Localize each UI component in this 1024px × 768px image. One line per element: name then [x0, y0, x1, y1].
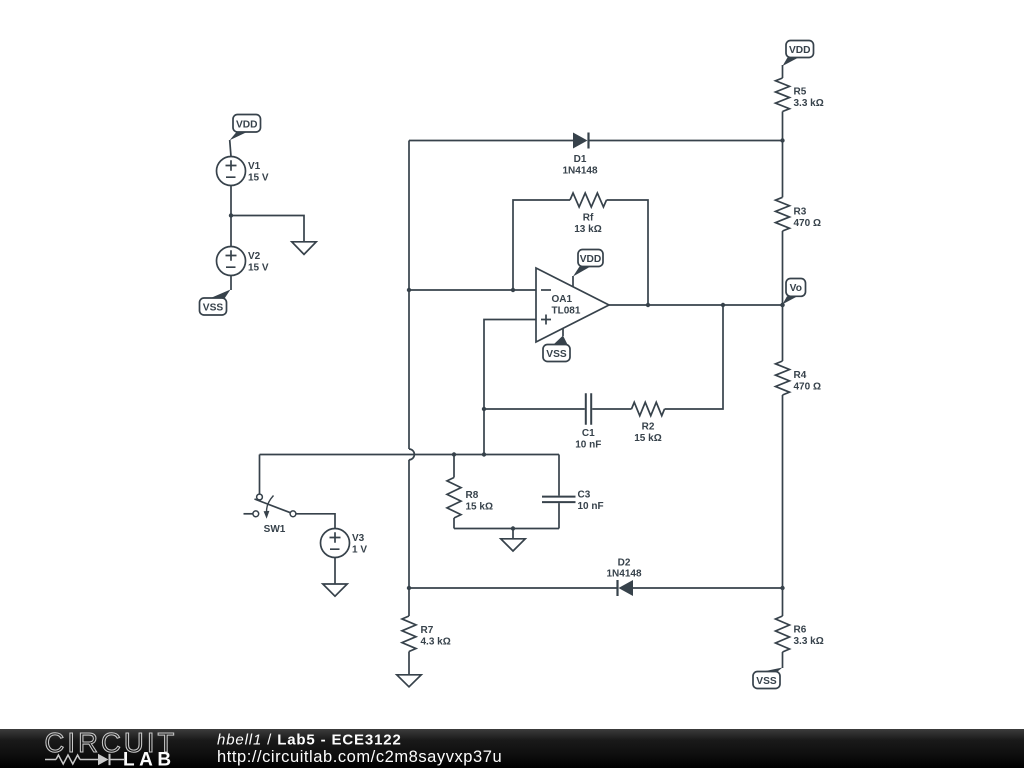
svg-text:R7: R7 — [421, 625, 434, 636]
wire V3 to ground — [334, 558, 336, 585]
wire hop — [409, 449, 414, 460]
svg-text:10 nF: 10 nF — [575, 440, 601, 451]
svg-text:R5: R5 — [794, 87, 807, 98]
svg-text:VSS: VSS — [756, 676, 777, 687]
node junction Vo — [780, 303, 784, 307]
svg-text:Rf: Rf — [583, 212, 594, 223]
diode D2 — [618, 580, 634, 596]
svg-text:VSS: VSS — [203, 303, 224, 314]
node junction inverting input — [407, 288, 411, 292]
resistor R4 — [776, 361, 790, 395]
resistor Rf — [570, 193, 606, 207]
svg-text:D1: D1 — [574, 154, 587, 165]
switch SW1 — [244, 494, 296, 519]
resistor R7 — [402, 616, 416, 652]
svg-text:470 Ω: 470 Ω — [794, 382, 821, 393]
svg-text:VDD: VDD — [580, 254, 602, 265]
svg-text:1N4148: 1N4148 — [606, 569, 641, 580]
voltage source V2 — [217, 247, 246, 276]
wire R3 to Vo node — [782, 231, 784, 361]
node junction R2/output — [721, 303, 725, 307]
op-amp non-inverting pin mark — [541, 315, 551, 325]
svg-text:1N4148: 1N4148 — [562, 166, 597, 177]
svg-text:15 V: 15 V — [248, 173, 269, 184]
node junction Rf tap — [511, 288, 515, 292]
power flag VDD (V1 top) — [230, 115, 261, 141]
ground (supply midpoint) — [292, 242, 316, 255]
power flag VSS (bottom right) — [753, 668, 783, 689]
wire top net — [409, 140, 783, 142]
svg-text:OA1: OA1 — [552, 294, 573, 305]
resistor R6 — [776, 616, 790, 652]
svg-text:http://circuitlab.com/c2m8sayv: http://circuitlab.com/c2m8sayvxp37u — [217, 748, 502, 766]
ground (below R8/C3) — [512, 529, 514, 539]
resistor R8 — [453, 455, 455, 478]
svg-text:SW1: SW1 — [264, 524, 286, 535]
resistor R2 — [632, 402, 665, 416]
node junction mid supply — [229, 213, 233, 217]
wire down to SW1 — [259, 455, 261, 494]
power flag VSS (V2 bottom) — [200, 290, 231, 316]
wire SW1 net (hops over left rail) — [260, 454, 455, 456]
wire V2 to VSS — [230, 276, 232, 291]
wire D2 net — [409, 587, 783, 589]
resistor R3 — [776, 197, 790, 231]
svg-text:R6: R6 — [794, 625, 807, 636]
wire VDD to V1 — [230, 140, 231, 157]
node junction C1 tap — [482, 407, 486, 411]
svg-text:3.3 kΩ: 3.3 kΩ — [794, 636, 824, 647]
wire R8/C3 box top — [454, 454, 559, 456]
capacitor C1 — [586, 393, 591, 425]
svg-text:15 V: 15 V — [248, 263, 269, 274]
node junction Rf/output — [646, 303, 650, 307]
svg-text:13 kΩ: 13 kΩ — [574, 224, 601, 235]
ground (below R7) — [397, 675, 421, 687]
power flag VSS (op-amp supply) — [543, 329, 570, 362]
wire mid supply to ground — [231, 216, 304, 242]
capacitor C3 — [558, 455, 560, 496]
node junction output/right rail — [780, 303, 784, 307]
resistor R5 — [776, 78, 790, 111]
svg-text:R2: R2 — [642, 421, 655, 432]
svg-text:TL081: TL081 — [552, 306, 581, 317]
node Vo flag — [783, 279, 806, 305]
svg-text:15 kΩ: 15 kΩ — [466, 502, 493, 513]
wire C1 left — [484, 408, 585, 410]
svg-text:R4: R4 — [794, 370, 807, 381]
node junction ground tap — [511, 526, 515, 530]
wire inverting input — [409, 289, 536, 291]
svg-text:C3: C3 — [578, 490, 591, 501]
svg-text:LAB: LAB — [123, 750, 176, 768]
node junction R8 box top — [482, 452, 486, 456]
voltage source V1 — [217, 157, 246, 186]
wire output net — [609, 304, 783, 306]
wire R8/C3 box bottom — [454, 528, 559, 530]
node junction top-right — [780, 138, 784, 142]
op-amp inverting pin mark — [541, 289, 551, 291]
svg-text:V1: V1 — [248, 161, 261, 172]
svg-text:hbell1 / Lab5 - ECE3122: hbell1 / Lab5 - ECE3122 — [217, 732, 402, 749]
wire left rail — [408, 141, 410, 589]
svg-text:C1: C1 — [582, 428, 595, 439]
wire VDD to R5 — [782, 65, 784, 78]
wire C1 to R2 — [592, 408, 631, 410]
node junction R8 top — [452, 452, 456, 456]
wire V1 to V2 — [230, 186, 232, 247]
power flag VDD (top right) — [783, 41, 814, 67]
power flag VDD (op-amp supply) — [573, 250, 603, 288]
svg-text:Vo: Vo — [790, 283, 802, 294]
svg-text:15 kΩ: 15 kΩ — [634, 433, 661, 444]
ground (below V3) — [323, 584, 347, 596]
svg-text:VDD: VDD — [236, 119, 258, 130]
wire R4 to R6 — [782, 395, 784, 616]
svg-text:VDD: VDD — [789, 45, 811, 56]
svg-text:3.3 kΩ: 3.3 kΩ — [794, 98, 824, 109]
svg-text:R3: R3 — [794, 206, 807, 217]
svg-text:470 Ω: 470 Ω — [794, 218, 821, 229]
wire non-inverting input — [484, 320, 536, 455]
diode D1 — [573, 133, 589, 149]
node junction left rail / D2 net — [407, 586, 411, 590]
op-amp OA1 TL081 body — [536, 268, 609, 342]
wire R5 to R3 — [782, 112, 784, 198]
wire to R7 — [408, 588, 410, 616]
node junction bottom-right — [780, 586, 784, 590]
wire R6 to VSS — [782, 652, 784, 668]
wire R2 to output — [665, 305, 724, 409]
svg-text:V2: V2 — [248, 251, 261, 262]
wire Rf right leg — [607, 200, 649, 305]
wire SW1 to V3 — [296, 514, 335, 529]
voltage source V3 — [321, 529, 350, 558]
svg-text:VSS: VSS — [546, 349, 567, 360]
CircuitLab logo resistor-diode glyph — [45, 754, 124, 765]
wire R7 to ground — [408, 652, 410, 675]
svg-text:R8: R8 — [466, 490, 479, 501]
svg-text:10 nF: 10 nF — [578, 501, 604, 512]
svg-text:V3: V3 — [352, 533, 365, 544]
wire Rf left leg — [513, 200, 570, 290]
svg-text:4.3 kΩ: 4.3 kΩ — [421, 636, 451, 647]
svg-text:1 V: 1 V — [352, 545, 367, 556]
svg-text:D2: D2 — [618, 558, 631, 569]
